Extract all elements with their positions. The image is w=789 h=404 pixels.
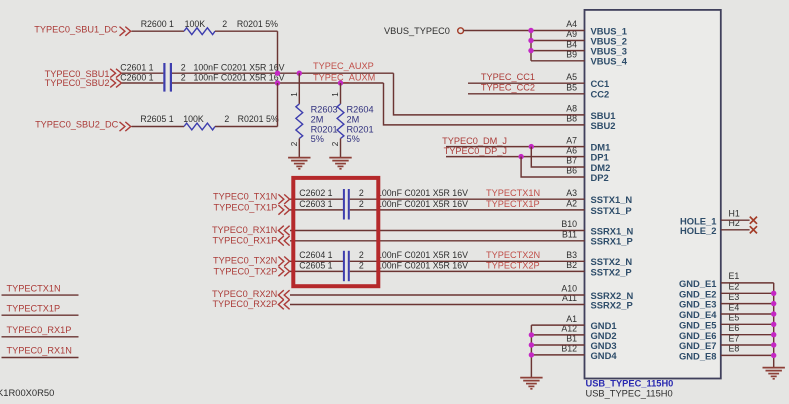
wire RX2P to pin A11 — [290, 304, 585, 306]
chevron TYPEC0_RX1P — [278, 236, 289, 246]
wire CC1 to pin A5 — [468, 82, 585, 84]
svg-text:A1: A1 — [566, 314, 577, 324]
svg-text:100K: 100K — [183, 114, 204, 124]
resistor R2603 — [298, 73, 300, 104]
wire GND1 pin A1 — [531, 324, 584, 326]
svg-text:2: 2 — [359, 250, 364, 260]
junction R2604/AUXM — [338, 80, 343, 85]
wire stub TYPECTX1N — [2, 294, 79, 296]
svg-text:VBUS_TYPEC0: VBUS_TYPEC0 — [384, 26, 450, 36]
svg-text:A4: A4 — [566, 19, 577, 29]
wire AUXM to pin B8 — [384, 83, 585, 125]
wire GND2 pin A12 — [531, 334, 584, 336]
svg-text:2: 2 — [224, 114, 229, 124]
svg-text:TYPECTX1N: TYPECTX1N — [7, 283, 61, 293]
svg-text:GND_E1: GND_E1 — [679, 278, 717, 289]
svg-text:TYPECTX1P: TYPECTX1P — [486, 199, 540, 209]
svg-text:K1R00X0R50: K1R00X0R50 — [0, 387, 54, 398]
wire stub TYPEC0_RX1N — [2, 357, 79, 359]
svg-text:2: 2 — [331, 141, 340, 146]
wire SBU1_DC to R2600 — [132, 30, 185, 32]
junction GND_E3 — [771, 301, 776, 306]
svg-text:1: 1 — [290, 92, 299, 97]
svg-text:R2604: R2604 — [347, 105, 374, 115]
junction DM — [529, 144, 534, 149]
svg-text:A8: A8 — [566, 104, 577, 114]
svg-text:USB_TYPEC_115H0: USB_TYPEC_115H0 — [586, 378, 674, 388]
svg-text:C2602 1: C2602 1 — [299, 188, 332, 198]
svg-text:TYPEC0_SBU2_DC: TYPEC0_SBU2_DC — [35, 120, 119, 130]
svg-text:TYPEC0_TX1P: TYPEC0_TX1P — [213, 203, 277, 213]
svg-text:100nF C0201 X5R 16V: 100nF C0201 X5R 16V — [194, 63, 285, 73]
svg-text:C2600 1: C2600 1 — [120, 73, 153, 83]
wire C2605 to pin B2 — [350, 270, 585, 272]
no-connect X HOLE_2 — [750, 226, 757, 233]
chevron TYPEC0_TX1P — [278, 205, 289, 215]
svg-text:TYPEC0_TX1N: TYPEC0_TX1N — [213, 192, 277, 202]
no-connect X HOLE_1 — [750, 217, 757, 224]
capacitor C2601 plates — [163, 63, 165, 92]
svg-text:1: 1 — [331, 92, 340, 97]
wire GND_E3 stub — [721, 303, 774, 305]
svg-text:E1: E1 — [729, 271, 740, 281]
svg-text:SSTX1_P: SSTX1_P — [591, 205, 632, 216]
svg-text:SSRX1_P: SSRX1_P — [591, 236, 633, 247]
wire TX2P to C2605 — [290, 270, 343, 272]
junction GND3 — [529, 342, 534, 347]
wire CC2 to pin B5 — [468, 93, 585, 95]
svg-text:100nF C0201 X5R 16V: 100nF C0201 X5R 16V — [377, 261, 468, 271]
chevron TYPEC0_TX1N — [278, 194, 289, 204]
svg-text:100nF C0201 X5R 16V: 100nF C0201 X5R 16V — [377, 250, 468, 260]
junction GND_E6 — [771, 332, 776, 337]
svg-text:A10: A10 — [561, 284, 577, 294]
junction VBUS B4 — [528, 48, 533, 53]
svg-text:B10: B10 — [561, 219, 577, 229]
chevron TYPEC0_TX2N — [278, 257, 289, 267]
ground GND1-4 — [520, 378, 542, 389]
junction GND_E5 — [771, 322, 776, 327]
wire GND_E2 stub — [721, 292, 774, 294]
wire DM to pin A7 — [446, 146, 585, 148]
wire R2605 to corner — [215, 126, 278, 128]
junction DP — [518, 154, 523, 159]
svg-text:R0201 5%: R0201 5% — [237, 19, 278, 29]
svg-text:TYPEC0_RX1P: TYPEC0_RX1P — [212, 236, 277, 246]
chevron TYPEC0_TX2P — [278, 267, 289, 277]
junction R2605/AUXM — [275, 80, 280, 85]
svg-text:R0201: R0201 — [311, 124, 338, 134]
svg-text:B3: B3 — [566, 250, 577, 260]
connector J2600 USB_TYPEC_115H0 body — [585, 10, 721, 379]
svg-text:SSTX1_N: SSTX1_N — [591, 194, 633, 205]
wire DM to pin B7 — [531, 147, 584, 167]
wire VBUS vertical — [530, 31, 532, 61]
svg-text:5%: 5% — [347, 134, 360, 144]
svg-text:DP1: DP1 — [591, 151, 609, 162]
svg-text:TYPEC0_SBU2: TYPEC0_SBU2 — [45, 78, 110, 88]
svg-text:TYPEC0_RX2N: TYPEC0_RX2N — [212, 289, 277, 299]
svg-text:TYPECTX2P: TYPECTX2P — [486, 261, 540, 271]
svg-text:SSRX2_P: SSRX2_P — [591, 299, 633, 310]
junction GND_E7 — [771, 342, 776, 347]
wire C2603 to pin A2 — [350, 209, 585, 211]
svg-text:A3: A3 — [566, 188, 577, 198]
svg-text:GND4: GND4 — [591, 350, 618, 361]
svg-text:A5: A5 — [566, 72, 577, 82]
wire TX2N to C2604 — [290, 260, 343, 262]
wire RX2N to pin A10 — [290, 294, 585, 296]
svg-text:2: 2 — [290, 141, 299, 146]
svg-text:TYPEC0_SBU1_DC: TYPEC0_SBU1_DC — [34, 24, 118, 34]
wire C2604 to pin B3 — [350, 260, 585, 262]
chevron TYPEC0_RX1N — [278, 226, 289, 236]
junction R2600/AUXP — [275, 71, 280, 76]
wire GND4 pin B12 — [531, 354, 584, 356]
svg-text:TYPEC_CC2: TYPEC_CC2 — [481, 82, 535, 92]
svg-text:R0201: R0201 — [347, 124, 374, 134]
svg-text:TYPEC_CC1: TYPEC_CC1 — [481, 72, 535, 82]
wire TX1N to C2602 — [290, 198, 343, 200]
wire DP to pin A6 — [446, 156, 585, 158]
svg-text:2: 2 — [359, 199, 364, 209]
wire to pin B9 — [531, 60, 585, 62]
svg-text:B5: B5 — [566, 83, 577, 93]
chevron TYPEC0_SBU2 — [110, 79, 121, 88]
capacitor C2603 plates — [348, 189, 350, 220]
wire TX1P to C2603 — [290, 209, 343, 211]
svg-text:TYPECTX1P: TYPECTX1P — [7, 303, 61, 313]
svg-text:VBUS_4: VBUS_4 — [591, 56, 628, 67]
svg-text:TYPEC0_DM_J: TYPEC0_DM_J — [442, 136, 507, 146]
wire down to AUXP net — [277, 31, 279, 73]
svg-text:100K: 100K — [185, 19, 206, 29]
svg-text:R2605 1: R2605 1 — [140, 114, 173, 124]
svg-text:100nF C0201 X5R 16V: 100nF C0201 X5R 16V — [377, 199, 468, 209]
svg-text:CC2: CC2 — [591, 89, 610, 100]
ground R2603 — [288, 158, 310, 169]
wire stub TYPEC0_RX1P — [2, 336, 79, 338]
svg-text:2: 2 — [181, 73, 186, 83]
capacitor C2605 plates — [348, 251, 350, 281]
highlight box around C2602-C2605 — [293, 178, 378, 286]
wire GND_E6 stub — [721, 334, 774, 336]
resistor R2604 — [340, 83, 342, 104]
svg-text:2M: 2M — [347, 114, 360, 124]
svg-text:2M: 2M — [311, 114, 324, 124]
chevron TYPEC0_SBU1_DC — [120, 27, 131, 36]
wire GND_E4 stub — [721, 313, 774, 315]
svg-text:TYPEC0_TX2P: TYPEC0_TX2P — [213, 267, 277, 277]
wire AUXP to pin A8 — [394, 73, 585, 115]
svg-text:TYPEC0_RX1P: TYPEC0_RX1P — [7, 325, 72, 335]
wire GND_E5 stub — [721, 323, 774, 325]
svg-text:100nF C0201 X5R 16V: 100nF C0201 X5R 16V — [377, 188, 468, 198]
wire GND_E8 stub — [721, 354, 774, 356]
wire C2602 to pin A3 — [350, 198, 585, 200]
wire RX1P to pin B11 — [290, 240, 585, 242]
chevron TYPEC0_RX2N — [278, 290, 289, 300]
capacitor C2600 plates — [170, 63, 172, 92]
svg-text:TYPECTX1N: TYPECTX1N — [486, 188, 540, 198]
junction VBUS A4 — [528, 28, 533, 33]
junction GND_E2 — [771, 291, 776, 296]
svg-text:TYPEC0_DP_J: TYPEC0_DP_J — [444, 146, 507, 156]
wire SBU2 to C2600 — [122, 82, 164, 84]
junction GND4 — [529, 352, 534, 357]
svg-text:SSTX2_P: SSTX2_P — [591, 266, 632, 277]
svg-text:5%: 5% — [311, 134, 324, 144]
wire VBUS to pin A4 — [464, 30, 585, 32]
svg-text:TYPECTX2N: TYPECTX2N — [486, 250, 540, 260]
svg-text:TYPEC0_RX1N: TYPEC0_RX1N — [212, 225, 277, 235]
wire up to AUXM net — [277, 83, 279, 127]
svg-text:HOLE_2: HOLE_2 — [680, 225, 716, 236]
svg-text:C2603 1: C2603 1 — [299, 199, 332, 209]
wire GND_E7 stub — [721, 344, 774, 346]
svg-text:TYPEC_AUXP: TYPEC_AUXP — [313, 61, 374, 71]
svg-text:GND_E7: GND_E7 — [679, 340, 717, 351]
capacitor C2602 plates — [343, 189, 345, 220]
svg-text:R2603: R2603 — [311, 105, 338, 115]
svg-text:2: 2 — [181, 63, 186, 73]
wire R2600 to corner — [215, 30, 278, 32]
svg-text:CC1: CC1 — [591, 78, 610, 89]
junction R2603/AUXP — [297, 71, 302, 76]
wire stub TYPECTX1P — [2, 314, 79, 316]
wire GND3 pin B1 — [531, 344, 584, 346]
port circle VBUS_TYPEC0 — [458, 28, 464, 34]
wire GND bus vertical — [530, 325, 532, 377]
wire to pin B4 — [531, 50, 585, 52]
svg-text:GND_E3: GND_E3 — [679, 299, 717, 310]
svg-text:TYPEC0_TX2N: TYPEC0_TX2N — [213, 256, 277, 266]
wire HOLE_2 stub — [721, 229, 750, 231]
svg-text:C2601 1: C2601 1 — [120, 63, 153, 73]
wire GND_E1 stub — [721, 282, 774, 284]
svg-text:USB_TYPEC_115H0: USB_TYPEC_115H0 — [586, 389, 673, 399]
capacitor C2604 plates — [343, 251, 345, 281]
wire AUXM net — [172, 82, 384, 84]
svg-text:GND_E8: GND_E8 — [679, 350, 717, 361]
svg-text:2: 2 — [359, 261, 364, 271]
ground GND_E1-E8 — [763, 368, 785, 379]
chevron TYPEC0_SBU1 — [110, 69, 121, 78]
wire RX1N to pin B10 — [290, 230, 585, 232]
svg-text:100nF C0201 X5R 16V: 100nF C0201 X5R 16V — [194, 73, 285, 83]
wire HOLE_1 stub — [721, 219, 750, 221]
svg-text:TYPEC_AUXM: TYPEC_AUXM — [313, 73, 375, 83]
svg-text:A7: A7 — [566, 135, 577, 145]
svg-text:2: 2 — [222, 19, 227, 29]
resistor R2605 — [184, 123, 215, 130]
svg-text:DP2: DP2 — [591, 172, 609, 183]
svg-text:C2605 1: C2605 1 — [299, 261, 332, 271]
svg-text:SBU2: SBU2 — [591, 120, 616, 131]
chevron TYPEC0_SBU2_DC — [120, 122, 131, 131]
svg-text:C2604 1: C2604 1 — [299, 250, 332, 260]
svg-text:TYPEC0_RX2P: TYPEC0_RX2P — [212, 299, 277, 309]
junction VBUS A9 — [528, 38, 533, 43]
svg-text:2: 2 — [359, 188, 364, 198]
chevron TYPEC0_RX2P — [278, 300, 289, 310]
junction GND_E4 — [771, 311, 776, 316]
svg-text:H1: H1 — [729, 209, 740, 219]
svg-text:TYPEC0_RX1N: TYPEC0_RX1N — [7, 346, 72, 356]
wire AUXP net — [172, 72, 394, 74]
wire GND_E bus vertical — [773, 283, 775, 367]
wire DP to pin B6 — [521, 157, 584, 177]
wire SBU1 to C2601 — [122, 72, 164, 74]
wire to pin A9 — [531, 40, 585, 42]
svg-text:A2: A2 — [566, 199, 577, 209]
svg-text:GND_E5: GND_E5 — [679, 319, 717, 330]
resistor R2600 — [184, 28, 215, 35]
ground R2604 — [329, 158, 351, 169]
svg-text:R2600 1: R2600 1 — [141, 19, 174, 29]
junction GND_E8 — [771, 353, 776, 358]
svg-text:R0201 5%: R0201 5% — [238, 114, 279, 124]
junction GND2 — [529, 332, 534, 337]
wire SBU2_DC to R2605 — [132, 126, 185, 128]
